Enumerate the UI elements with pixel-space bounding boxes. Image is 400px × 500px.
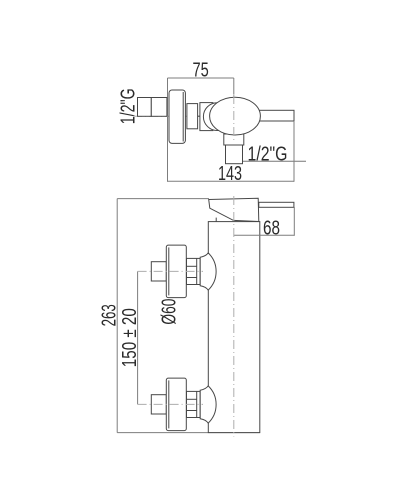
inlet stub bottom bbox=[151, 395, 166, 414]
union block A (top view) bbox=[187, 104, 198, 129]
svg-text:263: 263 bbox=[99, 304, 121, 326]
flange edge line (top view) bbox=[182, 92, 184, 142]
bell escutcheon bottom bbox=[200, 386, 216, 423]
link between blocks bbox=[198, 115, 200, 117]
body vertical centerline (front view) bbox=[233, 196, 235, 437]
dimension line 143 bbox=[168, 180, 295, 182]
cap skirt tick bbox=[215, 218, 217, 222]
body centerline over ellipse bbox=[233, 95, 235, 142]
nut facet line top-1 bbox=[187, 265, 197, 267]
dimension line 75 bbox=[168, 77, 234, 79]
flange edge line bottom bbox=[168, 380, 170, 428]
union nut bottom bbox=[187, 391, 201, 417]
body vertical centerline (top view) bbox=[233, 94, 235, 142]
extension line wall (75/143 left) bbox=[167, 78, 169, 182]
wall flange bottom bbox=[166, 378, 186, 431]
flange edge line top bbox=[168, 247, 170, 295]
lever handle (top view) bbox=[252, 110, 294, 121]
nut face line top bbox=[196, 258, 198, 284]
nut facet line top-2 bbox=[187, 277, 197, 279]
svg-text:143: 143 bbox=[218, 163, 242, 185]
inlet stub segment 1 (top view) bbox=[138, 98, 152, 117]
centerline top inlet bbox=[138, 270, 203, 272]
dimension line 263 bbox=[116, 199, 118, 433]
union block B (top view) bbox=[200, 103, 213, 131]
outlet boss (top view) bbox=[224, 134, 244, 145]
extension line body axis (75 right) bbox=[233, 78, 235, 94]
column body (front view) bbox=[208, 222, 259, 433]
inlet stub segment 2 (top view) bbox=[151, 98, 167, 117]
svg-text:1/2"G: 1/2"G bbox=[248, 143, 288, 165]
svg-text:1/2"G: 1/2"G bbox=[118, 88, 140, 124]
centerline bottom inlet bbox=[138, 403, 203, 405]
svg-text:150 ± 20: 150 ± 20 bbox=[119, 308, 141, 367]
horizontal centerline (top view) bbox=[133, 115, 204, 117]
bell escutcheon top bbox=[200, 253, 216, 290]
handle cap (front view) bbox=[209, 198, 259, 221]
dimension line 68 bbox=[234, 234, 294, 236]
wall flange (top view) bbox=[169, 90, 185, 143]
nut facet line bottom-1 bbox=[187, 398, 197, 400]
outlet pipe (top view) bbox=[226, 145, 243, 164]
dimension line 150±20 bbox=[137, 271, 139, 404]
extension line bottom (263) bbox=[117, 432, 260, 434]
extension line top (263) bbox=[117, 198, 209, 200]
outlet leader line bbox=[243, 160, 306, 162]
svg-text:68: 68 bbox=[263, 218, 280, 240]
union nut top bbox=[187, 258, 201, 284]
extension line lever tip (143 right) bbox=[293, 121, 295, 182]
inlet stub top bbox=[151, 262, 166, 281]
extension line lever tip (68) bbox=[293, 207, 295, 236]
lever handle (front view) bbox=[259, 202, 294, 207]
bell cone circle (top view) bbox=[203, 103, 231, 131]
svg-text:Ø60: Ø60 bbox=[159, 299, 181, 325]
nut facet line bottom-2 bbox=[187, 410, 197, 412]
wall flange top bbox=[166, 245, 186, 298]
nut face line bottom bbox=[196, 391, 198, 417]
mixer body ellipse (top view) bbox=[210, 97, 261, 135]
